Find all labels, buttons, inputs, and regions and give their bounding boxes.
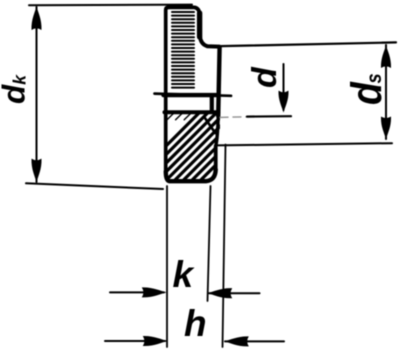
knurl bottom boundary (164, 93, 217, 97)
dimension k line left segment (110, 291, 164, 293)
d_k arrow down (31, 159, 41, 183)
dimension d_k bottom extension line (26, 183, 163, 189)
knurl lines on head (external view) (172, 12, 194, 88)
k arrow right (142, 287, 167, 297)
upper fillet head-to-hub (200, 36, 219, 47)
dimension k left extension line (shared with h) (166, 186, 168, 347)
head right face lower (section side) (214, 146, 218, 170)
d arrow down (278, 91, 288, 113)
nut head top edge and upper-right fillet to hub (168, 7, 200, 15)
dimension k line right segment (209, 292, 260, 294)
head right face upper (197, 13, 202, 37)
dimension d extension line (faint then solid) (220, 116, 256, 119)
d_k arrow up (31, 6, 41, 30)
head left face (166, 7, 168, 171)
svg-text:h: h (184, 303, 207, 344)
dimension k right extension line (208, 186, 211, 301)
lower fillet hub-to-head (216, 116, 219, 146)
d_s arrow up (381, 45, 391, 68)
svg-text:k: k (173, 254, 196, 295)
dimension h line left segment (105, 340, 165, 342)
section hatching 45deg (130, 112, 277, 182)
dimension d_k line (36, 7, 38, 182)
h arrow left (224, 336, 249, 346)
h arrow right (143, 336, 168, 346)
dimension d_s top extension line (209, 42, 396, 46)
dimension d_s bottom extension line (216, 143, 392, 145)
dimension h right extension line (223, 145, 226, 348)
dimension d leader line (283, 64, 285, 110)
bore mouth edge line (210, 97, 214, 111)
k arrow left (207, 288, 232, 298)
centerline with ticks beyond part (155, 94, 232, 96)
bore line (thread minor) in section (165, 110, 219, 114)
svg-text:d: d (246, 66, 284, 88)
thin thread-depth hatch row (167, 114, 214, 120)
dimension h line right segment (225, 340, 284, 342)
bore chamfer diagonal in section (205, 118, 215, 133)
bottom edge with rounded corners (166, 170, 216, 182)
hub right face (218, 47, 219, 116)
d_s arrow down (381, 117, 391, 140)
dimension d_s line (385, 45, 387, 139)
dimension d_k top extension line (29, 4, 192, 7)
